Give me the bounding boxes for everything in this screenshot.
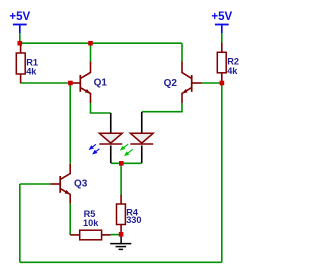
svg-text:R2: R2	[227, 56, 239, 66]
svg-text:Q2: Q2	[164, 78, 178, 89]
svg-text:Q1: Q1	[94, 78, 108, 89]
svg-text:330: 330	[126, 215, 141, 225]
svg-text:4k: 4k	[227, 66, 238, 76]
svg-text:+5V: +5V	[211, 11, 232, 23]
svg-text:+5V: +5V	[9, 11, 30, 23]
svg-text:4k: 4k	[26, 66, 37, 76]
svg-text:Q3: Q3	[74, 179, 88, 190]
svg-text:10k: 10k	[83, 218, 99, 228]
